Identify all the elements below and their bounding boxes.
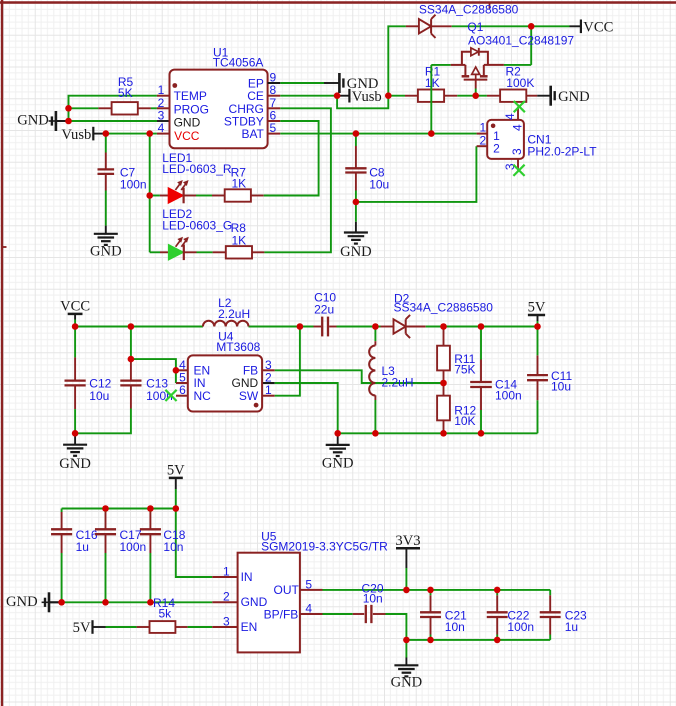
svg-text:PH2.0-2P-LT: PH2.0-2P-LT bbox=[527, 144, 597, 158]
svg-text:5V: 5V bbox=[73, 620, 91, 636]
svg-text:Vusb: Vusb bbox=[352, 89, 382, 105]
svg-text:10n: 10n bbox=[163, 540, 183, 554]
svg-text:4: 4 bbox=[511, 124, 525, 131]
svg-text:5K: 5K bbox=[118, 86, 133, 100]
svg-text:2.2uH: 2.2uH bbox=[218, 307, 250, 321]
svg-text:10u: 10u bbox=[89, 389, 109, 403]
svg-text:GND: GND bbox=[17, 113, 49, 129]
svg-text:GND: GND bbox=[340, 244, 372, 260]
svg-text:4: 4 bbox=[503, 113, 517, 120]
svg-text:1u: 1u bbox=[565, 620, 578, 634]
svg-text:1K: 1K bbox=[232, 176, 247, 190]
svg-text:2: 2 bbox=[479, 133, 486, 147]
svg-text:SS34A_C2886580: SS34A_C2886580 bbox=[419, 2, 519, 16]
svg-text:10u: 10u bbox=[551, 380, 571, 394]
svg-text:100K: 100K bbox=[506, 76, 534, 90]
svg-text:Q1: Q1 bbox=[467, 20, 483, 34]
svg-text:Vusb: Vusb bbox=[61, 127, 91, 143]
svg-text:100n: 100n bbox=[507, 620, 534, 634]
svg-text:SS34A_C2886580: SS34A_C2886580 bbox=[394, 301, 494, 315]
svg-text:10n: 10n bbox=[363, 591, 383, 605]
svg-text:10K: 10K bbox=[454, 414, 475, 428]
svg-text:EN: EN bbox=[241, 620, 258, 634]
svg-text:1: 1 bbox=[265, 383, 272, 397]
svg-text:AO3401_C2848197: AO3401_C2848197 bbox=[468, 33, 574, 47]
svg-text:2: 2 bbox=[493, 142, 500, 156]
svg-text:SW: SW bbox=[239, 389, 259, 403]
svg-text:100n: 100n bbox=[495, 389, 522, 403]
svg-text:5V: 5V bbox=[528, 300, 546, 316]
svg-text:GND: GND bbox=[6, 594, 38, 610]
svg-text:75K: 75K bbox=[454, 363, 475, 377]
svg-text:6: 6 bbox=[179, 383, 186, 397]
svg-text:SGM2019-3.3YC5G/TR: SGM2019-3.3YC5G/TR bbox=[261, 539, 388, 553]
svg-text:4: 4 bbox=[305, 602, 312, 616]
svg-text:TEMP: TEMP bbox=[174, 89, 207, 103]
svg-text:LED-0603_R: LED-0603_R bbox=[162, 162, 232, 176]
svg-text:2: 2 bbox=[223, 590, 230, 604]
svg-text:3: 3 bbox=[510, 148, 524, 155]
svg-text:5k: 5k bbox=[159, 607, 173, 621]
svg-text:1: 1 bbox=[223, 565, 230, 579]
svg-text:VCC: VCC bbox=[583, 20, 613, 36]
svg-text:22u: 22u bbox=[314, 302, 334, 316]
svg-text:5: 5 bbox=[269, 121, 276, 135]
svg-text:GND: GND bbox=[322, 455, 354, 471]
svg-text:100n: 100n bbox=[120, 178, 147, 192]
svg-text:VCC: VCC bbox=[174, 129, 200, 143]
svg-text:LED-0603_G: LED-0603_G bbox=[162, 218, 232, 232]
svg-text:IN: IN bbox=[241, 570, 253, 584]
svg-text:5: 5 bbox=[305, 577, 312, 591]
svg-text:GND: GND bbox=[174, 116, 201, 130]
svg-text:2.2uH: 2.2uH bbox=[382, 375, 414, 389]
svg-text:3V3: 3V3 bbox=[395, 533, 420, 549]
svg-text:MT3608: MT3608 bbox=[216, 340, 260, 354]
svg-text:3: 3 bbox=[223, 615, 230, 629]
svg-text:VCC: VCC bbox=[60, 299, 90, 315]
svg-text:10n: 10n bbox=[445, 620, 465, 634]
svg-text:GND: GND bbox=[90, 244, 122, 260]
svg-text:NC: NC bbox=[194, 389, 212, 403]
svg-text:BP/FB: BP/FB bbox=[264, 607, 299, 621]
svg-text:100n: 100n bbox=[120, 540, 147, 554]
svg-text:GND: GND bbox=[558, 89, 590, 105]
svg-text:OUT: OUT bbox=[274, 583, 300, 597]
svg-text:GND: GND bbox=[59, 456, 91, 472]
svg-text:GND: GND bbox=[391, 675, 423, 691]
svg-text:BAT: BAT bbox=[241, 127, 264, 141]
svg-text:4: 4 bbox=[158, 121, 165, 135]
svg-text:5V: 5V bbox=[167, 463, 185, 479]
svg-text:TC4056A: TC4056A bbox=[213, 56, 264, 70]
svg-text:PROG: PROG bbox=[174, 102, 209, 116]
svg-text:1u: 1u bbox=[76, 540, 89, 554]
svg-text:10u: 10u bbox=[369, 178, 389, 192]
svg-text:100n: 100n bbox=[146, 389, 173, 403]
svg-text:1K: 1K bbox=[232, 233, 247, 247]
